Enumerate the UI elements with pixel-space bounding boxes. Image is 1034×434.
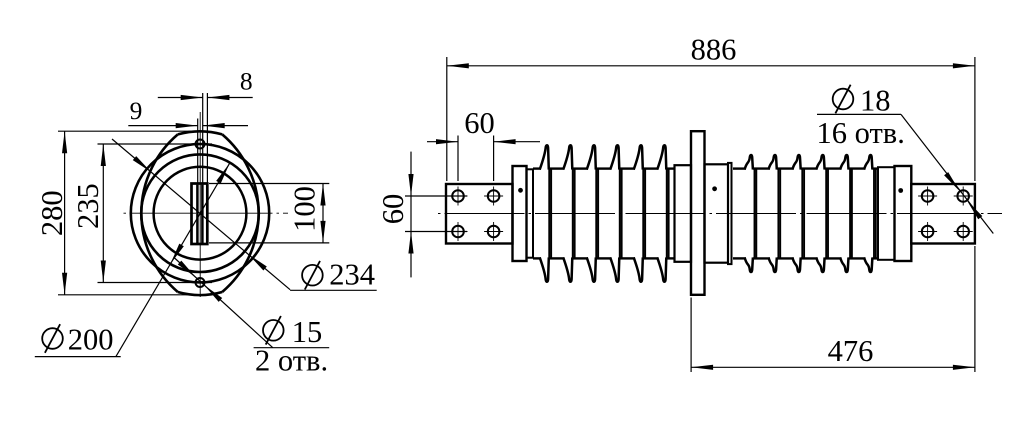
svg-text:16 отв.: 16 отв. xyxy=(817,116,905,150)
dim line 60 left seg xyxy=(427,141,458,143)
arrow D200 lower xyxy=(170,244,183,264)
extension line x=207.4 (dim 8) xyxy=(206,93,208,184)
extension line top tip (280) xyxy=(58,130,197,132)
leader line D15 xyxy=(174,258,273,348)
arrow D15 upper xyxy=(178,261,196,278)
lens outline right side arc xyxy=(222,134,258,292)
right shed 3 bottom fin xyxy=(792,257,800,272)
svg-text:280: 280 xyxy=(35,190,69,236)
lens outline left side arc xyxy=(141,134,177,292)
dim line 100 xyxy=(322,184,324,243)
left shed 6 bottom fin xyxy=(657,257,666,281)
right shed 2 top fin xyxy=(769,155,777,170)
left shed 3 shed faces xyxy=(595,169,597,259)
diameter symbol D15 xyxy=(263,316,284,345)
left shed 3 bottom fin xyxy=(587,257,596,281)
arrow D18 upper xyxy=(944,172,960,191)
left shed 4 bottom fin xyxy=(610,257,619,281)
arrow 8 right xyxy=(207,95,229,100)
svg-text:2 отв.: 2 отв. xyxy=(255,344,328,378)
right shed 4 top fin xyxy=(816,155,824,170)
left shed 4 shed faces xyxy=(619,169,621,259)
arrow 60 right xyxy=(494,139,516,144)
extension line 60v top xyxy=(405,195,467,197)
left shed 5 bottom fin xyxy=(634,257,643,281)
extension line 60 left xyxy=(457,136,459,182)
arrow 9 left xyxy=(176,123,198,128)
right shed 4 bottom fin xyxy=(816,257,824,272)
right view horizontal centerline xyxy=(438,213,1002,215)
arrow D200 upper xyxy=(216,163,229,183)
right pad hole at 928,232 xyxy=(922,226,934,238)
diameter symbol D200 xyxy=(42,324,63,353)
dim line 476 xyxy=(691,366,975,368)
leader line D234 xyxy=(112,139,290,290)
svg-text:476: 476 xyxy=(828,334,874,368)
collar left of middle flange xyxy=(675,165,692,262)
svg-text:18: 18 xyxy=(860,84,891,118)
extension line blade bottom (100) xyxy=(209,242,329,244)
left flange xyxy=(513,166,527,261)
svg-text:200: 200 xyxy=(68,323,114,357)
right section core/valley lines xyxy=(733,167,746,169)
dim line 9 left xyxy=(128,125,197,127)
diameter symbol D18 xyxy=(833,85,854,114)
right shed 2 shed faces xyxy=(777,169,779,259)
right shed 1 top fin xyxy=(745,155,753,170)
svg-text:60: 60 xyxy=(376,194,410,225)
arrow 280 bottom xyxy=(62,273,67,295)
right shed 4 shed faces xyxy=(825,169,827,259)
arrow D18 lower xyxy=(967,200,983,219)
left view vertical centerline xyxy=(199,112,201,297)
right shed 5 top fin xyxy=(840,155,848,170)
right shed 1 shed faces xyxy=(754,169,756,259)
arrow 9 right xyxy=(203,123,225,128)
extension line bottom hole (235) xyxy=(98,282,213,284)
bottom hole D15 xyxy=(196,278,205,287)
blade terminal rectangle xyxy=(192,184,208,245)
left view horizontal centerline xyxy=(124,212,289,214)
extension line 886/476 right upper xyxy=(974,57,976,181)
left shed 6 top fin xyxy=(657,145,666,169)
left shed 5 shed faces xyxy=(642,169,644,259)
right shed 5 shed faces xyxy=(849,169,851,259)
right shed 6 shed faces xyxy=(873,169,875,259)
left pad hole at 494,196 xyxy=(488,190,500,202)
right shed 3 top fin xyxy=(792,155,800,170)
arrow 476 left xyxy=(691,365,713,370)
left shed 1 top fin xyxy=(540,145,549,169)
dim line 60 right seg xyxy=(494,141,540,143)
right shed 6 bottom fin xyxy=(864,257,872,272)
blade inner line left xyxy=(196,185,199,243)
arrow D234 lower xyxy=(248,254,266,270)
leader line D200 xyxy=(116,163,230,356)
arrow 60v top xyxy=(408,174,413,196)
svg-text:9: 9 xyxy=(130,96,143,125)
dim line 280 xyxy=(64,131,66,295)
left pad hole at 458,196 xyxy=(452,190,464,202)
extension line 60v bottom xyxy=(405,231,467,233)
svg-text:60: 60 xyxy=(464,106,495,140)
left flange dot xyxy=(518,188,523,193)
left section core/valley lines xyxy=(533,167,541,169)
right shed 2 bottom fin xyxy=(769,257,777,272)
arrow 886 right xyxy=(953,63,975,68)
leader shoulder D200 xyxy=(35,356,121,358)
arrow 280 top xyxy=(62,131,67,153)
extension line bottom tip (280) xyxy=(58,294,197,296)
left shed 2 shed faces xyxy=(572,169,574,259)
lens outline top cap arc xyxy=(178,131,222,134)
extension line 60 right xyxy=(493,136,495,182)
top hole D15 xyxy=(196,140,205,149)
arrow 235 bottom xyxy=(101,261,106,283)
left shed 2 top fin xyxy=(563,145,572,169)
right flange dot xyxy=(898,188,903,193)
arrow D15 lower xyxy=(204,285,222,302)
svg-text:234: 234 xyxy=(329,258,375,292)
leader shoulder D15 xyxy=(254,347,330,349)
right flange xyxy=(895,166,912,261)
extension line top hole (235) xyxy=(98,143,213,145)
dim line 9 right xyxy=(203,125,248,127)
left shed 6 shed faces xyxy=(666,169,668,259)
right flange collar xyxy=(878,167,895,260)
right pad hole at 928,196 xyxy=(922,190,934,202)
lens outline bottom cap arc xyxy=(178,292,222,295)
dim line 60 vertical xyxy=(410,152,412,278)
circle D200 xyxy=(141,154,259,272)
extension line 476 left xyxy=(690,298,692,373)
svg-text:235: 235 xyxy=(71,183,105,229)
dim line 235 xyxy=(102,144,104,283)
arrow 60 left xyxy=(436,139,458,144)
right pad hole at 963,232 xyxy=(957,226,969,238)
circle D234 xyxy=(131,144,269,282)
extension line 476 right lower xyxy=(974,246,976,372)
left shed 2 bottom fin xyxy=(563,257,572,281)
leader shoulder D234 xyxy=(290,289,377,291)
arrow 8 left xyxy=(181,95,203,100)
extension line 886 left xyxy=(446,57,448,181)
arrow 100 bottom xyxy=(320,221,325,243)
left shed 1 shed faces xyxy=(548,169,550,259)
blade inner line right xyxy=(201,185,204,243)
svg-text:100: 100 xyxy=(287,186,321,232)
right shed 1 bottom fin xyxy=(745,257,753,272)
arrow 100 top xyxy=(320,184,325,206)
left shed 5 top fin xyxy=(634,145,643,169)
extension line x=197.7 (dim 9) xyxy=(197,119,199,184)
extension line x=202.7 (dim 8/9) xyxy=(202,93,204,184)
left shed 1 bottom fin xyxy=(540,257,549,281)
inner circle xyxy=(154,167,247,260)
diameter symbol D234 xyxy=(302,261,323,290)
arrow 476 right xyxy=(953,365,975,370)
right pad hole at 963,196 xyxy=(957,190,969,202)
svg-text:8: 8 xyxy=(240,67,253,96)
left pad hole at 458,232 xyxy=(452,226,464,238)
right terminal pad xyxy=(911,184,975,244)
right shed 3 shed faces xyxy=(801,169,803,259)
shoulder line D18 xyxy=(817,113,901,115)
leader line D18 xyxy=(901,114,993,233)
dim line 886 xyxy=(447,65,975,67)
left flange collar xyxy=(527,169,534,257)
right shed 5 bottom fin xyxy=(840,257,848,272)
left shed 4 top fin xyxy=(610,145,619,169)
arrow 886 left xyxy=(447,63,469,68)
right collar dot xyxy=(712,186,717,191)
extension line blade top (100) xyxy=(209,183,329,185)
middle mounting flange xyxy=(691,131,705,295)
arrow D234 upper xyxy=(133,156,152,172)
left terminal pad xyxy=(446,184,513,244)
dim line 8 left xyxy=(158,97,203,99)
collar right of middle flange xyxy=(705,164,729,262)
collar lip xyxy=(728,163,732,264)
svg-text:886: 886 xyxy=(691,33,737,67)
left pad hole at 494,232 xyxy=(488,226,500,238)
left shed 3 top fin xyxy=(587,145,596,169)
dim line 8 right xyxy=(207,97,252,99)
arrow 235 top xyxy=(101,144,106,166)
right shed 6 top fin xyxy=(864,155,872,170)
arrow 60v bottom xyxy=(408,232,413,254)
